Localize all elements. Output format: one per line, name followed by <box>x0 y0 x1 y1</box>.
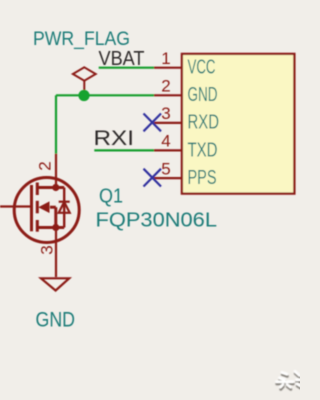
Q1 drain connection <box>37 186 64 189</box>
PWR_FLAG stem <box>83 81 85 96</box>
svg-text:5: 5 <box>161 159 170 178</box>
pin 5 PPS stub <box>154 177 182 179</box>
svg-text:RXI: RXI <box>94 127 135 150</box>
Q1 source pin (3) <box>55 228 57 278</box>
wire GND net horizontal <box>56 94 154 96</box>
Q1 body diode cathode bar <box>59 201 70 203</box>
svg-text:TXD: TXD <box>188 139 218 161</box>
svg-text:1: 1 <box>161 49 170 68</box>
junction <box>78 90 89 101</box>
Q1 body diode triangle <box>59 202 70 213</box>
svg-text:GND: GND <box>36 309 76 332</box>
pin 2 GND stub <box>154 94 182 96</box>
svg-text:Q1: Q1 <box>99 186 123 208</box>
Q1 gate bar <box>30 185 33 231</box>
Q1 channel segment top <box>36 183 39 196</box>
svg-text:4: 4 <box>161 132 170 151</box>
wire VBAT net <box>99 67 154 69</box>
IC U1 body <box>182 54 295 194</box>
no-connect X pin 5 <box>144 169 162 187</box>
svg-text:3: 3 <box>161 104 170 123</box>
svg-text:RXD: RXD <box>188 112 220 134</box>
pin 4 TXD stub <box>154 149 182 151</box>
svg-text:FQP30N06L: FQP30N06L <box>96 209 218 232</box>
wire GND net vertical to Q1 drain <box>55 95 57 153</box>
Q1 drain dot <box>52 184 59 191</box>
svg-text:VCC: VCC <box>188 57 216 79</box>
svg-text:VBAT: VBAT <box>99 48 145 70</box>
svg-text:3: 3 <box>38 245 57 254</box>
Q1 body link <box>50 206 56 209</box>
Q1 gate pin line <box>0 205 30 207</box>
watermark shadow <box>277 374 301 390</box>
PWR_FLAG diamond <box>73 67 96 80</box>
pin 3 RXD stub <box>154 122 182 124</box>
Q1 body diode line <box>63 188 65 228</box>
transistor Q1 body circle <box>14 178 79 243</box>
Q1 body arrow <box>38 201 49 213</box>
transistor Q1 drain pin (2) <box>55 154 57 188</box>
svg-text:GND: GND <box>188 84 218 106</box>
Q1 source connection <box>37 226 64 229</box>
svg-text:PPS: PPS <box>188 167 217 189</box>
svg-text:2: 2 <box>36 161 55 170</box>
Q1 channel segment middle <box>36 201 39 214</box>
pin 1 VCC stub <box>154 67 182 69</box>
Q1 body to source <box>54 207 57 227</box>
Q1 source dot <box>52 224 59 231</box>
svg-text:PWR_FLAG: PWR_FLAG <box>33 29 130 50</box>
no-connect X pin 3 <box>144 114 162 132</box>
watermark 头条 strokes <box>277 372 301 388</box>
wire RXI net <box>94 149 154 151</box>
Q1 channel segment bottom <box>36 220 39 232</box>
svg-text:2: 2 <box>161 77 170 96</box>
ground symbol <box>41 278 69 290</box>
